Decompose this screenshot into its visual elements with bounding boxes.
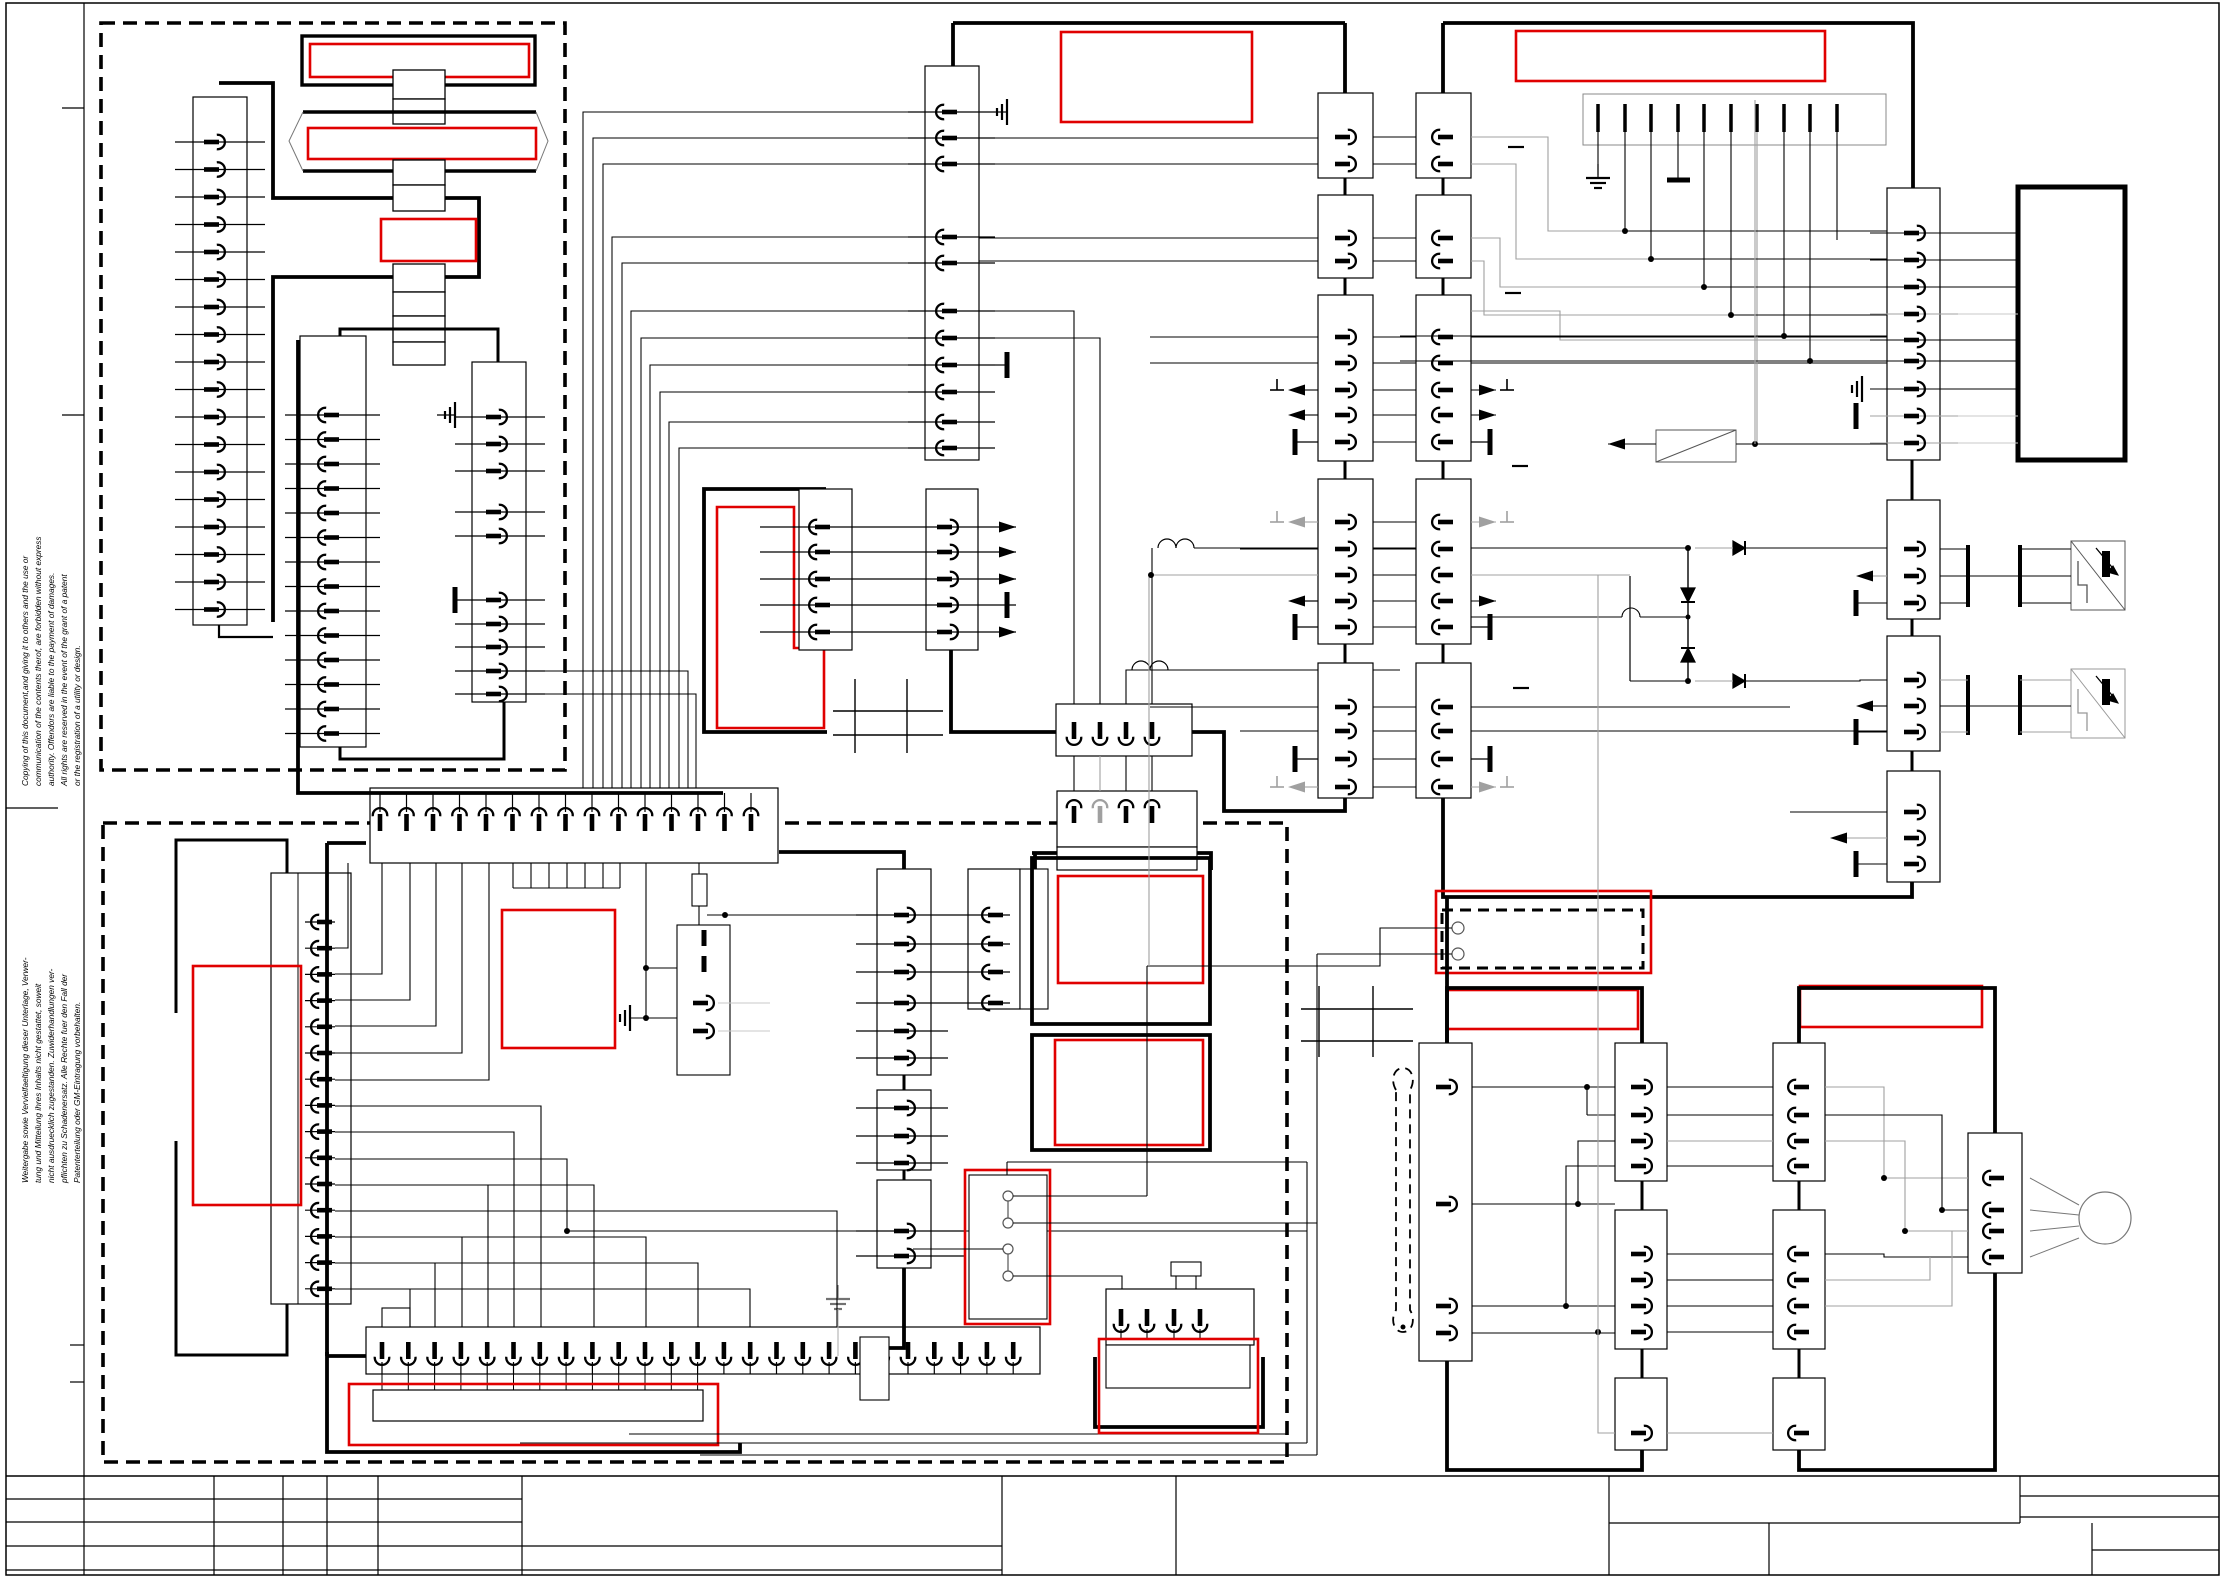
wire S1-c2 (1013, 1222, 1317, 1224)
connector X20 (6-pole) (877, 869, 931, 1075)
bus bar band (chevron) (289, 112, 548, 171)
connector X30 (4-pole) (1419, 1043, 1472, 1361)
terminator (X3) (453, 587, 458, 613)
highlight A1 (310, 44, 529, 77)
wire risers bottom-right (1007, 1162, 1317, 1455)
junction box (left of X22) (860, 1337, 889, 1400)
highlight S1 (965, 1170, 1050, 1324)
highlight (motor cable left) (1447, 990, 1638, 1029)
wire staircases X15 to X16 (1471, 137, 1887, 340)
connector X19 (3-pole) (1887, 771, 1940, 882)
connector X16 pins (1870, 226, 1958, 451)
dashed enclosure (control unit, bottom-left) (103, 823, 1287, 1462)
ground (X16) (1852, 376, 1862, 402)
terminal strip (in X13 highlight) (373, 1390, 703, 1421)
sensor contacts (1380, 922, 1464, 960)
connector X6 pins (760, 520, 870, 640)
ground (X5 pin1) (995, 99, 1007, 125)
wire (thick frame around K5) (704, 489, 827, 732)
wire (thick X9 frame) (1032, 853, 1211, 870)
connector X10 (15-pole, double row) (271, 873, 351, 1304)
highlight (module label, top-right) (1516, 31, 1825, 81)
wires X32 to X33 (1825, 1087, 1968, 1306)
fuse link F3 (393, 160, 445, 185)
wire (thick X30 chain) (1447, 897, 1642, 1470)
X19 symbols (1790, 812, 1887, 877)
connector X21 (3-pole) (877, 1090, 931, 1170)
fuse link F1 (393, 70, 445, 99)
wire hop line to diodes (1194, 547, 1688, 549)
wire (thick chain bottom left) (1192, 732, 1345, 811)
chain links X15 (1442, 178, 1445, 663)
svg-text:Copying of this document,and g: Copying of this document,and giving it t… (20, 555, 30, 786)
svg-text:authority. Offendors are liabl: authority. Offendors are liable to the p… (46, 573, 56, 786)
plug X8 (4-pole) (1056, 704, 1192, 756)
socket X9 pins (1067, 756, 1160, 823)
connector X3 pins (455, 410, 545, 702)
fuse link F5 (393, 264, 445, 292)
wire riser (switch to grey junction) (1147, 572, 1444, 1196)
highlight (module label, top-center) (1061, 32, 1252, 122)
ground (shield) (1586, 164, 1610, 188)
wire harness X10 to X11 (335, 863, 489, 1080)
wire harness X5 to X11 bundle (545, 112, 908, 788)
ground (shield clamp) (620, 1005, 677, 1031)
wires X14-X15 (1373, 137, 1416, 787)
ECU A2 (large module) (2018, 187, 2125, 460)
title block grid (6, 1476, 2219, 1575)
svg-text:All rights are reserved in the: All rights are reserved in the event of … (59, 574, 69, 787)
wire (thick bus under X12) (327, 1352, 740, 1452)
connector X1 pins (175, 135, 265, 617)
connector X22 (2-pole) (877, 1180, 931, 1268)
twisted pair hops (1132, 539, 1194, 670)
connector X23 (4-pole) (968, 869, 1048, 1009)
wire S1-c4 (1013, 1276, 1122, 1289)
mounting bracket (bottom-left) (176, 840, 287, 1355)
svg-text:nicht ausdruecklich zugestande: nicht ausdruecklich zugestanden. Zuwider… (46, 968, 56, 1183)
shield clamp pins (693, 996, 770, 1038)
connector X32 chain (right) (1773, 1043, 1825, 1450)
wire (thick top bus left) (953, 23, 1345, 93)
cable marker (dashed loop) (1393, 1068, 1413, 1332)
wire (long bottom runs) (520, 1434, 1317, 1455)
polarity marks (1505, 147, 1529, 688)
connector X17 (3-pole) (1887, 500, 1940, 619)
wire diode to X17 (1695, 547, 1887, 549)
terminal strip X25 (1106, 1345, 1250, 1388)
terminal block T3 body (393, 342, 445, 365)
connector X21 pins (856, 1101, 948, 1171)
highlight K5 (stepped) (717, 507, 824, 728)
wire (thick bridge X2-X3) (340, 329, 498, 362)
module A3 frame (thick) (1032, 858, 1210, 1024)
connector X1 (18-pole, top-left) (193, 97, 247, 625)
wire harness X10 to X12 (335, 1106, 1307, 1327)
terminator (X16) (1854, 403, 1859, 429)
svg-text:Weitergabe sowie Vervielfaelti: Weitergabe sowie Vervielfaeltigung diese… (20, 957, 30, 1183)
wire (thick top bus right) (1443, 23, 1913, 188)
wire S1-c3 (913, 1248, 1003, 1250)
socket X9 (4-pole) (1057, 791, 1197, 870)
shield bar (top-right) (1583, 94, 1886, 145)
copyright notice english (rotated) (20, 536, 82, 787)
shield bar stubs (1598, 104, 1837, 444)
wire links X30-X31 risers (1566, 1087, 1615, 1433)
wires shield to X16 (1400, 231, 1887, 361)
wire (X2 to X3 link) (340, 702, 504, 759)
connector X2 pins (285, 408, 380, 741)
svg-text:tung und Mitteilung ihres Inha: tung und Mitteilung ihres Inhalts nicht … (33, 983, 43, 1183)
fuse link F6 (393, 292, 445, 316)
diode V2 (1681, 588, 1695, 602)
connector X22 pins (856, 1224, 965, 1263)
connector X5 (11-pole, center top) (925, 66, 979, 460)
sensor block (dashed) (1442, 910, 1643, 968)
connector chain X15 (right) (1416, 93, 1471, 798)
connector X33 (4-pole) (1968, 1133, 2022, 1273)
svg-text:communication of the contents: communication of the contents therof, ar… (33, 536, 43, 786)
wire X31 riser grey (1597, 575, 1599, 1332)
connector X16 (9-pole, right) (1887, 188, 1940, 460)
wires X15 to X16 straight (1471, 337, 1887, 731)
wire (thick bus above X11) (298, 340, 723, 793)
highlight X10 (193, 966, 301, 1205)
connector X6 (5-pole) (799, 489, 852, 650)
wire bracket U2 (1940, 675, 2071, 735)
svg-text:Patenterteilung oder GM-Eintra: Patenterteilung oder GM-Eintragung vorbe… (72, 1002, 82, 1183)
margin tick marks (6, 108, 84, 1382)
diode V3 (1681, 648, 1695, 662)
X15 right symbols (1471, 379, 1514, 793)
resistor R2 (1171, 1262, 1201, 1289)
X15 pins (1432, 130, 1453, 795)
jumper box on X12 (382, 1308, 410, 1327)
terminator (shield) (1667, 178, 1690, 183)
connector chain X14 (left) (1318, 93, 1373, 798)
highlight (module, bottom-left) (502, 910, 615, 1048)
copyright notice german (rotated) (20, 957, 82, 1184)
connector X5 pins (908, 105, 995, 456)
highlight X13 (349, 1384, 718, 1445)
connector X20 pins (707, 908, 948, 1066)
connector X33 pins (1983, 1171, 2004, 1264)
wires X16 to A2 (1958, 233, 2018, 443)
shield clamp box (677, 925, 730, 1075)
shield clamp terminators (702, 930, 707, 972)
wire (thick through motor cable left) (1447, 988, 1642, 1043)
wire bracket U1 (1940, 545, 2071, 607)
fuse link F7 (393, 316, 445, 342)
plug X8 pins (1067, 722, 1160, 745)
ground (grey, X12 area) (826, 1285, 850, 1356)
wire diode column (1685, 545, 1691, 684)
wire X8 risers (979, 311, 1400, 704)
dashed enclosure (control unit, top-left) (101, 23, 565, 770)
diode V4 (1733, 541, 1745, 555)
chain links right (1911, 460, 1914, 771)
switch S1 frame (969, 1175, 1047, 1319)
wires X5 to X14 (979, 138, 1318, 731)
X17-X19 pins (1904, 542, 1925, 872)
highlight bus band (308, 128, 536, 159)
X18 symbols (1856, 701, 1887, 746)
connector X7 (5-pole) (926, 489, 978, 650)
terminal comb under X11 (513, 863, 620, 888)
wire shield drop (1754, 100, 1756, 444)
connector X2 (14-pole) (300, 336, 366, 747)
connector X12 pins (375, 1342, 1021, 1390)
switch S1 contacts (1003, 1191, 1013, 1281)
connector X11 (17-pole header, horizontal) (370, 788, 778, 863)
fuse link F2 (393, 99, 445, 124)
wire (thick supply loop around K1) (219, 83, 479, 637)
wire isolator feed (1608, 441, 1887, 447)
chain links X20-X22 (903, 1075, 906, 1180)
resistor R1 (692, 863, 707, 925)
module A1 (top, with highlight) (302, 36, 535, 85)
wire riser c2 (1317, 954, 1444, 1223)
relay socket X24 pins (1114, 1309, 1208, 1339)
module A4 frame (thick) (1032, 1035, 1210, 1150)
chain links X14 (1344, 178, 1347, 663)
transducer U1 (2071, 541, 2125, 610)
svg-text:pflichten zu Schadenersatz. Al: pflichten zu Schadenersatz. Alle Rechte … (59, 973, 69, 1184)
crossing grid (center) (833, 679, 943, 753)
highlight A3 (1058, 876, 1203, 983)
connector X11 pins (373, 793, 759, 831)
ground (X3 top) (437, 402, 455, 428)
connector X7 pins (870, 520, 1016, 640)
wire (thick under X22) (889, 1268, 904, 1348)
highlight (sensor block) (1436, 891, 1651, 973)
wires X30 to X31 (1472, 1084, 1615, 1335)
highlight A4 (1055, 1040, 1203, 1145)
crossing grid (bottom) (1301, 986, 1413, 1057)
X32 pins (1788, 1080, 1809, 1441)
terminator (X5 pin8) (995, 352, 1007, 378)
wires X31-X32 (1667, 1087, 1773, 1433)
wire (thick bus, bottom-left C-shape) (327, 843, 366, 1356)
transducer U2 (2071, 669, 2125, 738)
connector X23 pins (948, 908, 1010, 1011)
X14 left symbols (1270, 379, 1318, 793)
wire diode branch (1598, 575, 1887, 681)
isolator V1 (1656, 430, 1736, 462)
fuse link F4 (393, 185, 445, 211)
connector X31 chain (middle) (1615, 1043, 1667, 1450)
connector X10 pins (305, 915, 335, 1296)
wire (thick frame X25) (1095, 1357, 1263, 1427)
wire (thick chain bottom right) (1443, 798, 1912, 897)
diode V5 (1733, 674, 1745, 688)
wire clamp feed (643, 863, 677, 1018)
margin column line (83, 3, 85, 1575)
highlight X25 (1099, 1339, 1258, 1433)
connector X18 (3-pole) (1887, 636, 1940, 751)
relay socket X24 (4-pole) (1106, 1289, 1254, 1345)
svg-text:or the registration of a utili: or the registration of a utility or desi… (72, 645, 82, 786)
wire S1-c1 (1013, 1195, 1147, 1197)
wire (thick X7 to T-junction) (951, 650, 1056, 732)
connector X12 (25-pole header, horizontal) (366, 1327, 1040, 1374)
highlight K1 (381, 219, 476, 261)
chain links X32 (1798, 1181, 1801, 1378)
wire (thick X20 feed) (779, 852, 904, 869)
X31 pins (1631, 1080, 1652, 1441)
wire (thick through motor cable right) (1799, 988, 1995, 1470)
connector X30 pins (1436, 1080, 1457, 1341)
chain links X31 (1641, 1181, 1644, 1378)
connector X3 (10-pole) (472, 362, 526, 702)
arrow (isolator) (1608, 439, 1625, 450)
wire diode to X18 (1471, 608, 1688, 617)
X17 symbols (1856, 571, 1887, 617)
X14 pins (1335, 130, 1356, 795)
highlight (motor cable right) (1800, 986, 1982, 1027)
motor M1 (2030, 1178, 2131, 1257)
